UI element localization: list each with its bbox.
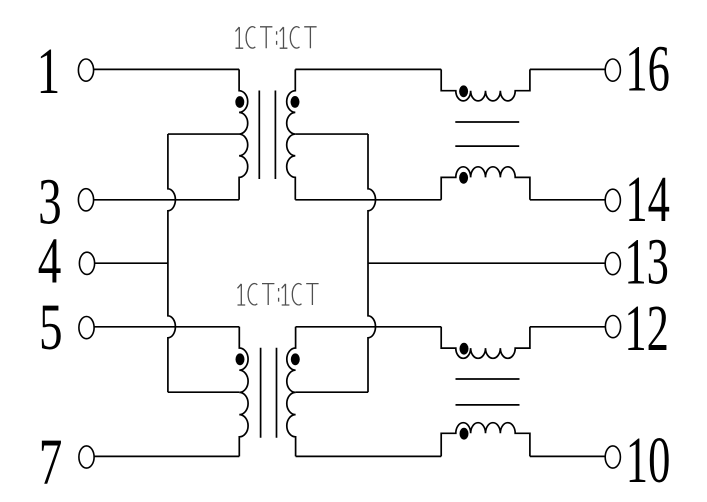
choke L2 lower winding	[441, 423, 530, 457]
choke L1 upper winding	[441, 69, 530, 101]
pin 5 terminal circle	[79, 317, 94, 339]
wire T1 secondary bottom to choke L1 (passes under right bus hop)	[295, 199, 441, 201]
svg-text:1: 1	[37, 36, 61, 108]
transformer T1 core	[259, 91, 275, 180]
right center-tap bus with hops over pin14 and pin12 wires	[368, 134, 376, 392]
wire pin7 to T2 primary bottom	[94, 455, 239, 457]
pin 14 label	[625, 164, 670, 237]
pin 7 label	[39, 426, 63, 498]
choke L1 upper winding polarity dot	[459, 85, 468, 97]
pin 16 label	[625, 33, 670, 106]
choke L2 core	[456, 379, 520, 405]
wire pin1 to T1 primary top	[94, 68, 240, 70]
wire T2 secondary top to choke L2 (passes under right bus hop)	[296, 326, 442, 328]
pin 4 label	[38, 225, 62, 297]
T1 primary center tap stub	[168, 133, 239, 135]
wire choke L1 to pin 14	[530, 199, 605, 201]
pin 4 terminal circle	[79, 252, 94, 274]
pin 5 label	[39, 292, 63, 364]
transformer T1 secondary winding (right)	[287, 69, 296, 199]
choke L2 lower winding polarity dot	[460, 428, 469, 440]
svg-text:16: 16	[625, 33, 670, 106]
transformer T1 primary winding (left, pins 1-3)	[239, 69, 248, 199]
svg-text:4: 4	[38, 225, 62, 297]
wire pin13 to right center-tap bus	[368, 262, 605, 264]
wire T1 secondary top to choke L1	[295, 68, 441, 70]
choke L2 upper winding polarity dot	[460, 343, 469, 355]
pin 13 label	[624, 226, 669, 299]
wire choke L2 to pin 12	[530, 326, 606, 328]
wire T2 secondary bottom to choke L2	[296, 455, 442, 457]
choke L1 lower winding polarity dot	[459, 172, 468, 184]
choke L1 lower winding	[441, 167, 530, 200]
transformer T1 polarity dot primary	[235, 96, 244, 108]
pin 3 terminal circle	[78, 189, 93, 211]
transformer T1 polarity dot secondary	[291, 96, 300, 108]
T2 primary center tap stub	[168, 391, 239, 393]
pin 7 terminal circle	[79, 446, 94, 468]
T2 ratio label 1CT:1CT	[238, 284, 319, 306]
pin 10 terminal circle	[605, 446, 620, 468]
pin 10 label	[626, 425, 671, 498]
transformer T2 primary winding (left, pins 5-7)	[239, 327, 248, 457]
pin 14 terminal circle	[605, 189, 620, 211]
pin 1 label	[37, 36, 61, 108]
T2 secondary center tap stub	[296, 391, 368, 393]
pin 12 label	[624, 293, 669, 366]
pin 13 terminal circle	[605, 253, 620, 275]
transformer T2 core	[261, 348, 277, 438]
transformer T2 polarity dot primary	[236, 353, 245, 365]
pin 3 label	[38, 166, 62, 238]
pin 1 terminal circle	[78, 59, 93, 81]
wire choke L2 to pin 10	[530, 455, 605, 457]
transformer T2 polarity dot secondary	[291, 353, 300, 365]
choke L1 core	[455, 122, 519, 146]
wire pin5 to T2 primary top	[94, 326, 239, 328]
choke L2 upper winding	[441, 327, 530, 359]
left center-tap bus with hops over pin3 and pin5 wires	[168, 134, 176, 392]
svg-text:5: 5	[39, 292, 63, 364]
svg-text:7: 7	[39, 426, 63, 498]
T1 secondary center tap stub	[295, 133, 368, 135]
wire pin4 to left center-tap bus	[95, 262, 168, 264]
svg-text:12: 12	[624, 293, 669, 366]
transformer T2 secondary winding (right)	[287, 327, 296, 457]
pin 16 terminal circle	[605, 59, 620, 81]
T1 ratio label 1CT:1CT	[236, 27, 317, 49]
pin 12 terminal circle	[605, 316, 620, 338]
wire pin3 to T1 primary bottom	[94, 199, 240, 201]
wire choke L1 to pin 16	[530, 68, 605, 70]
svg-text:10: 10	[626, 425, 671, 498]
svg-text:13: 13	[624, 226, 669, 299]
